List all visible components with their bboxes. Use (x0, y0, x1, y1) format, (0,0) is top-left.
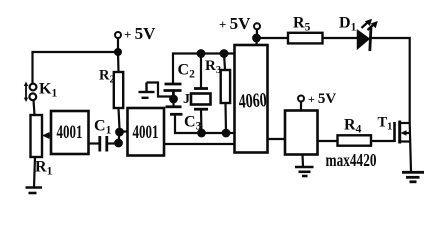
ground (oscillator midpoint) (139, 83, 155, 98)
resistor R5 (288, 33, 323, 44)
node: +5V/R2/K1 junction (114, 48, 122, 56)
capacitor C3 (166, 99, 183, 114)
wire: T1 source to ground (410, 123, 411, 172)
svg-text:K1: K1 (39, 81, 57, 100)
node: R3 top on rail (220, 49, 229, 58)
power +5V (top middle) (254, 23, 260, 45)
resistor R4 (338, 135, 372, 145)
wire: driver to ground (301, 155, 304, 167)
svg-text:4060: 4060 (238, 89, 267, 113)
wire: U2 output to 4060 (164, 143, 235, 145)
op-amp U1 gate 4001 (51, 111, 89, 154)
svg-text:D1: D1 (339, 15, 357, 34)
switch K1 (24, 82, 37, 103)
svg-text:R4: R4 (344, 117, 362, 136)
IC U4 driver max4420 (285, 111, 318, 155)
svg-text:4001: 4001 (133, 122, 159, 143)
capacitor C2 (164, 84, 182, 95)
power +5V (left) (115, 32, 121, 49)
resistor R3 (221, 54, 230, 134)
wire: R4 to T1 gate (371, 140, 395, 142)
svg-text:+ 5V: + 5V (124, 24, 156, 43)
svg-text:R5: R5 (293, 15, 311, 34)
wire: D1 to T1 drain (372, 38, 410, 123)
wire: C3 to bottom rail (175, 114, 235, 133)
wire: node C to middle ground (147, 83, 174, 97)
node C (C2/C3 midpoint) (169, 95, 178, 104)
wire: U1 out to C1 (89, 142, 100, 144)
transistor T1 (MOSFET) (395, 121, 410, 144)
svg-text:R3: R3 (205, 58, 221, 76)
node: +5V/4060/R5 junction (252, 34, 261, 43)
svg-text:T1: T1 (378, 115, 393, 133)
svg-text:R2: R2 (99, 68, 115, 86)
LED D1 (358, 19, 378, 51)
node B (C1 junction) (114, 139, 123, 148)
wire: oscillator top rail (173, 54, 235, 84)
wire: C1 to node B (107, 142, 115, 144)
svg-text:J: J (183, 92, 190, 107)
op-amp U2 gate 4001 (128, 108, 165, 156)
svg-text:C1: C1 (94, 118, 112, 137)
svg-text:+ 5V: + 5V (219, 14, 251, 33)
crystal J (191, 54, 211, 134)
node: R3 bottom on rail (222, 129, 231, 138)
wire: junction to K1 top (33, 52, 119, 84)
node: crystal bottom on rail (197, 129, 206, 138)
wire: driver output to R4 (318, 140, 338, 142)
node: crystal top on rail (197, 49, 206, 58)
power +5V (right) (298, 96, 304, 111)
capacitor C1 (100, 136, 107, 152)
potentiometer R1 (31, 115, 52, 157)
wire: node A to node B (119, 132, 120, 143)
wire: junction to R5 (257, 37, 289, 39)
wire: 4060 output to driver (268, 138, 286, 140)
svg-text:max4420: max4420 (326, 150, 377, 170)
IC U3 4060 (235, 45, 268, 153)
node A (R2/U2 input) (115, 128, 124, 137)
ground (under T1) (402, 172, 424, 182)
wire: node A to U2 input (120, 130, 128, 132)
svg-text:R1: R1 (35, 159, 53, 178)
wire: K1 to R1 (34, 100, 35, 115)
ground (under max4420) (295, 167, 314, 176)
resistor R2 (114, 52, 123, 129)
ground (under R1) (26, 188, 43, 194)
wire: R5 to D1 (323, 37, 358, 39)
svg-text:4001: 4001 (57, 122, 83, 143)
svg-text:+ 5V: + 5V (308, 91, 336, 107)
wire: R1 to ground (34, 157, 35, 187)
svg-text:C2: C2 (178, 62, 196, 81)
